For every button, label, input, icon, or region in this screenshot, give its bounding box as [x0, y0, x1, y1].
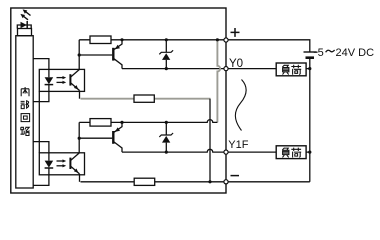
svg-text:24V DC: 24V DC — [336, 47, 375, 59]
svg-text:5: 5 — [318, 47, 324, 59]
svg-text:Y1F: Y1F — [228, 139, 248, 151]
svg-text:Y0: Y0 — [229, 58, 243, 70]
